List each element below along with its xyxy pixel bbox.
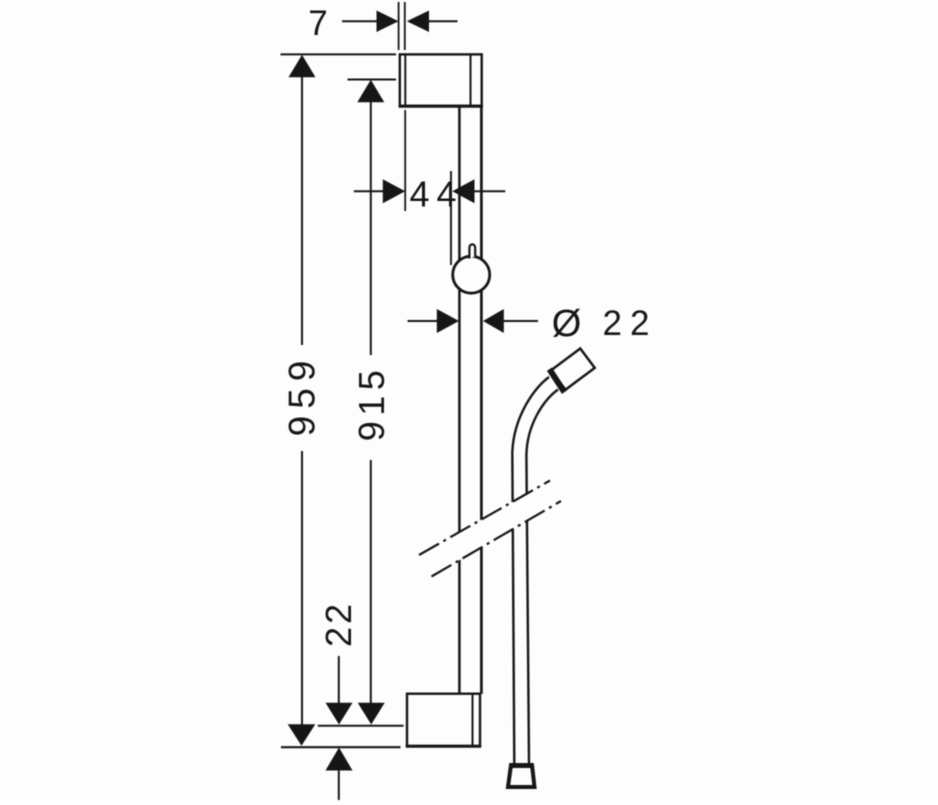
break line upper (dash-dot) xyxy=(419,481,550,556)
svg-text:7: 7 xyxy=(308,4,327,43)
dimension 959 top extension line xyxy=(281,53,397,55)
slider knob tab xyxy=(469,244,475,258)
arrow 22 down xyxy=(326,703,353,725)
arrow 44 right xyxy=(452,179,474,203)
arrow bottom up xyxy=(326,748,353,771)
break band (white gap across rail and hose) xyxy=(411,477,568,581)
svg-text:915: 915 xyxy=(351,365,392,442)
dimension 915 vertical line xyxy=(370,101,372,355)
arrow 44 left xyxy=(383,179,405,203)
rail end extension line (915/22) xyxy=(318,725,404,727)
break line lower (dash-dot) xyxy=(432,501,562,577)
arrow 959 top xyxy=(289,55,316,78)
dimension 915 top extension line xyxy=(348,79,397,81)
top wall bracket xyxy=(399,54,483,106)
arrow diameter22 right xyxy=(483,309,504,333)
dimension diameter 22 lines xyxy=(408,320,438,322)
dimension 959 vertical line xyxy=(301,76,303,345)
dimension 44 lines xyxy=(354,190,384,192)
arrow dim7 right xyxy=(407,11,429,33)
svg-text:959: 959 xyxy=(282,354,323,437)
bottom unlabeled dimension vertical line xyxy=(338,770,340,801)
wall extension line bottom xyxy=(281,746,401,748)
dimension 22 bottom vertical line xyxy=(338,656,340,704)
rail tube right edge xyxy=(480,104,483,694)
hose connector (rotated rectangle) xyxy=(551,348,595,389)
arrow diameter22 left xyxy=(437,309,459,333)
bottom wall bracket xyxy=(406,694,481,747)
dimension 44 extension lines xyxy=(404,110,406,211)
hose connector nut xyxy=(549,369,564,392)
dimension 7 lines xyxy=(342,20,377,22)
rail tube left edge xyxy=(458,106,461,694)
svg-text:22: 22 xyxy=(603,304,658,343)
slider knob circle xyxy=(453,256,490,293)
hose end cap xyxy=(508,765,535,787)
svg-text:22: 22 xyxy=(318,601,359,647)
arrow 915 top xyxy=(357,80,384,103)
svg-text:44: 44 xyxy=(409,174,463,215)
arrow dim7 left xyxy=(377,11,399,33)
svg-text:Ø: Ø xyxy=(552,303,582,345)
dimension 7 extension lines xyxy=(398,2,400,50)
arrow 915 down xyxy=(358,703,385,725)
arrow 959 bottom xyxy=(288,724,316,746)
hose curve from connector xyxy=(512,377,558,763)
